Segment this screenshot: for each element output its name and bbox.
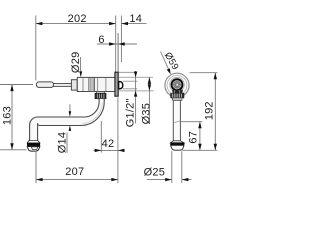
bonnet front view <box>170 77 185 92</box>
dimension 207 <box>36 152 118 183</box>
svg-text:207: 207 <box>65 166 84 178</box>
spout tube (S-curve) <box>30 99 105 142</box>
knurled nut front view <box>171 93 184 98</box>
body seam right <box>105 78 107 92</box>
label G1/2" dimension ticks <box>119 72 154 91</box>
svg-text:Ø14: Ø14 <box>57 132 69 154</box>
svg-text:6: 6 <box>98 34 104 46</box>
label Ø59 with leader <box>161 51 181 75</box>
label Ø29 <box>70 52 82 78</box>
dimension 42 <box>94 98 125 184</box>
svg-text:14: 14 <box>129 13 142 25</box>
dimension 6 <box>97 34 137 46</box>
extension line pipe end in wall (for 14) <box>120 16 122 63</box>
spout coupling nut <box>97 92 105 94</box>
wall flange side view <box>115 72 118 96</box>
dimension Ø25 <box>144 151 192 183</box>
svg-text:Ø35: Ø35 <box>140 103 152 125</box>
svg-text:67: 67 <box>187 131 199 144</box>
extension line wall face (for 6) <box>117 33 119 72</box>
extension line flange face (for 202/6) <box>115 16 117 72</box>
svg-text:202: 202 <box>68 13 87 25</box>
dimension 192 <box>183 73 218 151</box>
dimension 67 <box>181 122 203 151</box>
svg-text:Ø25: Ø25 <box>144 166 166 178</box>
body seam mid <box>97 78 99 92</box>
G1/2" dimension line (outside arrows) <box>125 71 138 127</box>
body knurl ring <box>89 78 95 92</box>
dimension 163 left <box>0 85 33 150</box>
threaded stub behind wall <box>119 82 123 89</box>
extension line handle tip (left, for 202) <box>35 16 37 81</box>
dimension 202 <box>36 13 116 25</box>
svg-text:42: 42 <box>102 138 115 150</box>
dimension 14 <box>121 13 146 25</box>
body seam left <box>82 78 84 92</box>
svg-text:163: 163 <box>2 106 14 125</box>
handle adapter <box>71 80 77 90</box>
aerator front view <box>170 141 184 143</box>
handle grip <box>36 82 53 88</box>
Ø35 dimension line (inside arrows) <box>140 77 152 124</box>
outlet pipe front view <box>173 100 180 142</box>
pipe seam front view <box>174 121 181 123</box>
svg-text:G1/2": G1/2" <box>125 98 137 127</box>
bonnet neck front view <box>172 90 183 93</box>
svg-text:192: 192 <box>204 101 216 120</box>
washer front view <box>173 98 182 100</box>
spout aerator side view <box>27 141 40 143</box>
escutcheon circle front view <box>165 73 189 97</box>
label Ø14 <box>57 104 72 153</box>
handle rod <box>54 84 72 87</box>
valve body cylinder <box>77 77 115 91</box>
